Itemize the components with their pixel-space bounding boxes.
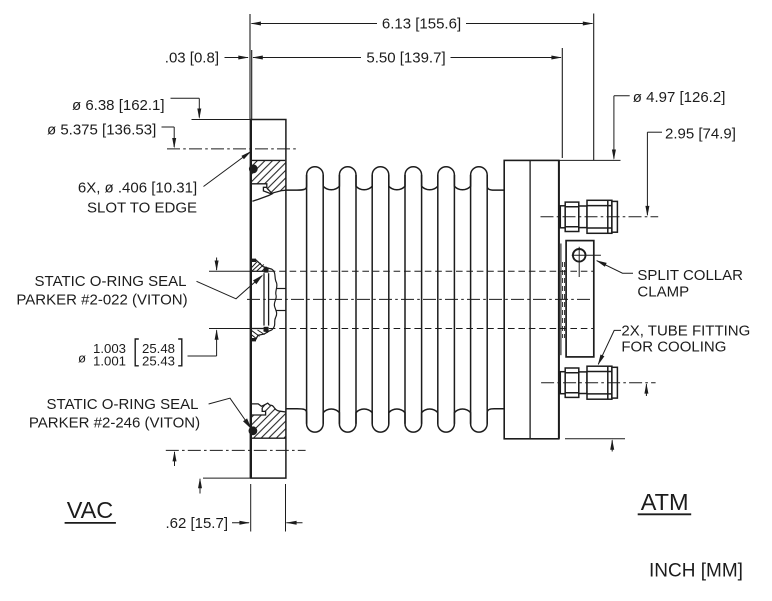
bolt slot section (hatched, bottom) bbox=[251, 403, 286, 438]
fitting centerline, bottom bbox=[541, 382, 656, 384]
svg-text:ø 4.97 [126.2]: ø 4.97 [126.2] bbox=[633, 89, 726, 106]
svg-text:FOR COOLING: FOR COOLING bbox=[621, 339, 726, 356]
bolt circle centerline, top bbox=[167, 148, 299, 150]
o-ring #2-246 section, top bbox=[249, 165, 258, 174]
fitting centerline, top bbox=[541, 216, 659, 218]
svg-text:ø 5.375 [136.53]: ø 5.375 [136.53] bbox=[47, 122, 156, 139]
o-ring #2-246 section, bottom bbox=[249, 426, 258, 435]
svg-text:SPLIT COLLAR: SPLIT COLLAR bbox=[637, 267, 743, 284]
clamped tube behind clamp bbox=[560, 244, 562, 356]
svg-text:6.13 [155.6]: 6.13 [155.6] bbox=[382, 16, 461, 33]
svg-text:PARKER #2-246 (VITON): PARKER #2-246 (VITON) bbox=[29, 415, 200, 432]
svg-text:STATIC O-RING SEAL: STATIC O-RING SEAL bbox=[47, 396, 199, 413]
bolt circle centerline, bottom bbox=[166, 449, 306, 451]
svg-text:STATIC O-RING SEAL: STATIC O-RING SEAL bbox=[35, 273, 187, 290]
o-ring #2-022 sections bbox=[264, 268, 269, 273]
tube fitting (top) bbox=[560, 200, 617, 233]
svg-text:ATM: ATM bbox=[641, 489, 689, 515]
svg-text:6X, ø .406 [10.31]: 6X, ø .406 [10.31] bbox=[78, 180, 197, 197]
bore hidden line, top bbox=[269, 270, 594, 272]
svg-text:5.50 [139.7]: 5.50 [139.7] bbox=[366, 50, 445, 67]
bore hidden line, bottom bbox=[269, 328, 594, 330]
tube fitting (bottom) bbox=[560, 366, 617, 399]
split collar clamp body bbox=[566, 241, 594, 357]
svg-text:2.95 [74.9]: 2.95 [74.9] bbox=[665, 125, 736, 142]
flange vacuum-side face (thick line) bbox=[250, 120, 252, 479]
svg-text:2X, TUBE FITTING: 2X, TUBE FITTING bbox=[621, 322, 750, 339]
svg-text:1.001: 1.001 bbox=[93, 353, 126, 368]
svg-text:ø: ø bbox=[78, 350, 86, 365]
svg-text:SLOT TO EDGE: SLOT TO EDGE bbox=[87, 200, 197, 217]
bore insert with o-ring groove bbox=[251, 260, 286, 341]
svg-text:CLAMP: CLAMP bbox=[637, 284, 689, 301]
main centerline axis bbox=[247, 298, 594, 300]
svg-text:.62 [15.7]: .62 [15.7] bbox=[165, 515, 228, 532]
svg-text:PARKER #2-022 (VITON): PARKER #2-022 (VITON) bbox=[16, 292, 187, 309]
svg-text:INCH [MM]: INCH [MM] bbox=[649, 561, 743, 582]
flange body bbox=[251, 120, 286, 479]
svg-text:ø 6.38 [162.1]: ø 6.38 [162.1] bbox=[72, 97, 165, 114]
clamp bolt hole bbox=[573, 249, 586, 262]
dimension 5.50 [139.7] bbox=[251, 50, 253, 119]
svg-text:.03 [0.8]: .03 [0.8] bbox=[165, 50, 219, 67]
svg-text:VAC: VAC bbox=[67, 497, 114, 523]
svg-text:25.43: 25.43 bbox=[142, 353, 175, 368]
dimension 6.13 [155.6] bbox=[249, 14, 251, 119]
atmosphere-side plate bbox=[504, 160, 559, 438]
bolt slot section (hatched, top) bbox=[252, 160, 286, 193]
bellows convolutions bbox=[286, 167, 504, 432]
